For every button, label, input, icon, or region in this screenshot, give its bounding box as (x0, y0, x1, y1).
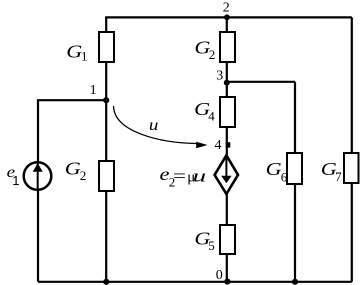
svg-text:u: u (193, 166, 207, 185)
svg-text:=: = (173, 166, 186, 186)
svg-text:1: 1 (90, 83, 97, 98)
svg-text:4: 4 (208, 109, 215, 124)
svg-text:6: 6 (281, 169, 288, 184)
svg-text:2: 2 (223, 1, 230, 16)
svg-text:7: 7 (335, 169, 342, 184)
svg-text:G: G (266, 159, 282, 179)
svg-text:0: 0 (216, 268, 223, 283)
svg-text:u: u (149, 117, 159, 134)
svg-text:4: 4 (215, 138, 222, 153)
svg-text:G: G (65, 158, 81, 178)
svg-text:G: G (66, 41, 82, 61)
svg-text:3: 3 (216, 69, 223, 84)
svg-text:1: 1 (12, 173, 19, 188)
svg-text:5: 5 (208, 238, 215, 253)
svg-text:1: 1 (81, 48, 88, 63)
svg-text:2: 2 (209, 47, 216, 62)
svg-text:2: 2 (80, 168, 87, 183)
